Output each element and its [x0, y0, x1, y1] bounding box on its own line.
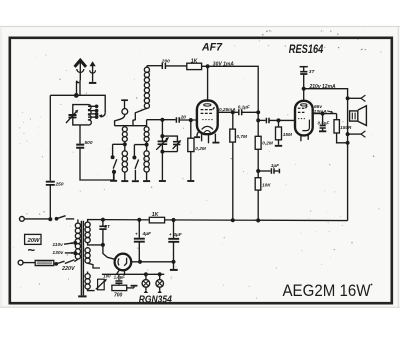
svg-text:100: 100 [103, 274, 111, 279]
svg-text:0,7M: 0,7M [237, 134, 248, 139]
svg-text:30V 1mA: 30V 1mA [213, 61, 235, 67]
svg-text:1µF: 1µF [271, 163, 279, 168]
svg-text:210v 12mA: 210v 12mA [309, 84, 337, 90]
svg-text:150R: 150R [340, 125, 352, 130]
svg-text:RES164: RES164 [289, 42, 324, 56]
svg-text:4µF: 4µF [142, 231, 153, 237]
svg-text:AF7: AF7 [201, 42, 223, 54]
svg-text:AEG2M 16W: AEG2M 16W [283, 281, 371, 300]
svg-text:0,1µF: 0,1µF [238, 104, 250, 109]
svg-text:1,8µF: 1,8µF [114, 275, 126, 280]
svg-text:4µF: 4µF [172, 232, 183, 238]
svg-text:+: + [135, 232, 138, 237]
svg-text:0,5µF: 0,5µF [318, 120, 330, 125]
svg-text:200: 200 [161, 59, 170, 65]
svg-text:500: 500 [85, 140, 93, 146]
svg-text:10K: 10K [262, 182, 271, 187]
svg-text:250: 250 [55, 181, 64, 187]
svg-text:15M: 15M [283, 132, 292, 137]
svg-text:130v: 130v [52, 250, 63, 256]
svg-text:0,2M: 0,2M [195, 146, 206, 151]
svg-text:13mA: 13mA [314, 109, 328, 115]
svg-text:700: 700 [114, 292, 123, 298]
svg-text:0,2M: 0,2M [262, 140, 273, 145]
svg-text:+: + [169, 232, 172, 237]
svg-text:RGN354: RGN354 [139, 294, 172, 305]
svg-text:~: ~ [28, 243, 36, 258]
svg-text:0,25mA: 0,25mA [219, 107, 236, 112]
svg-text:110v: 110v [52, 242, 63, 248]
svg-text:20: 20 [180, 114, 187, 120]
svg-text:220V: 220V [61, 266, 75, 272]
